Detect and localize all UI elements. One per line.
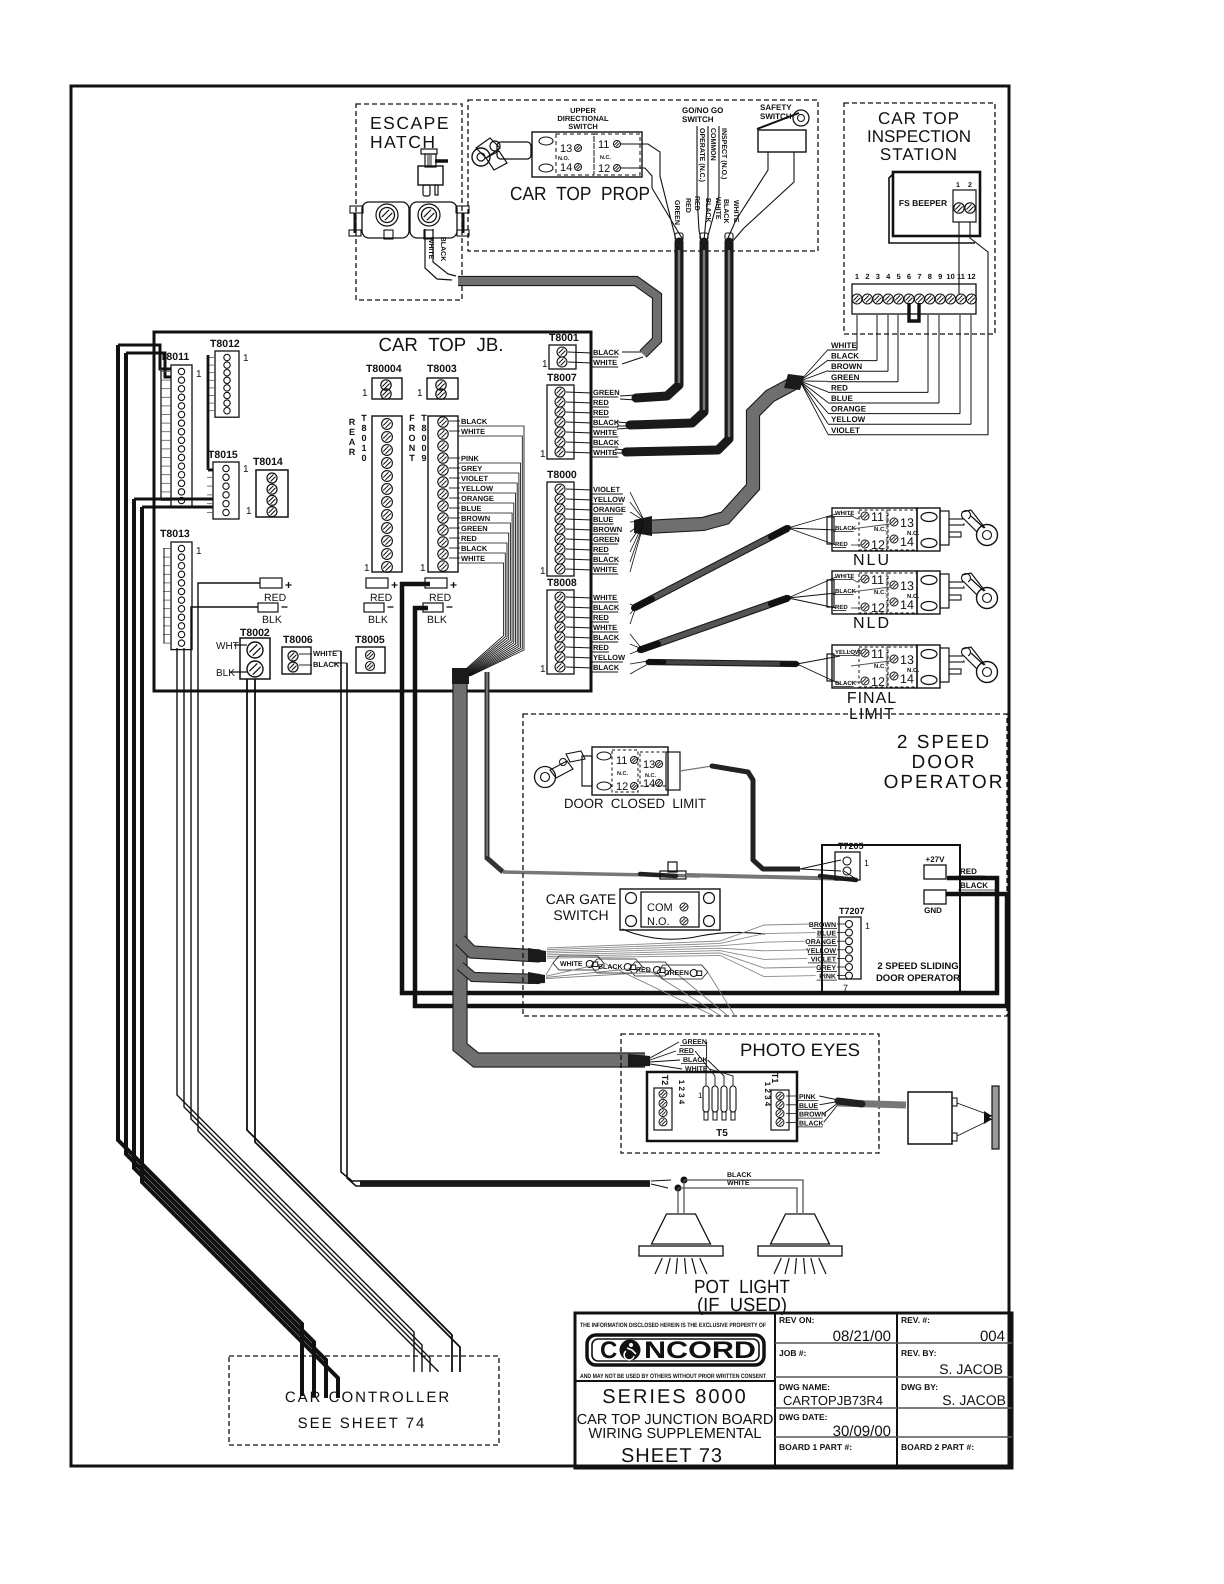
svg-text:NLD: NLD xyxy=(853,615,891,632)
svg-text:BLUE: BLUE xyxy=(799,1103,818,1110)
svg-text:T8003: T8003 xyxy=(427,363,457,375)
svg-text:RED: RED xyxy=(679,1048,694,1055)
svg-text:1: 1 xyxy=(540,566,546,577)
svg-text:BLACK: BLACK xyxy=(313,660,340,669)
svg-text:DWG BY:: DWG BY: xyxy=(901,1382,938,1392)
svg-text:GREEN: GREEN xyxy=(461,524,488,533)
svg-text:VIOLET: VIOLET xyxy=(831,426,860,435)
svg-text:PINK: PINK xyxy=(461,454,480,463)
svg-text:BROWN: BROWN xyxy=(593,525,622,534)
svg-text:9: 9 xyxy=(421,453,426,463)
svg-text:BLUE: BLUE xyxy=(593,515,613,524)
svg-text:13: 13 xyxy=(643,759,655,771)
svg-text:14: 14 xyxy=(560,162,572,174)
svg-text:VIOLET: VIOLET xyxy=(593,485,621,494)
svg-text:WHT: WHT xyxy=(216,641,239,652)
svg-text:11: 11 xyxy=(871,647,884,661)
svg-text:T8000: T8000 xyxy=(547,469,577,481)
svg-text:2: 2 xyxy=(865,272,869,281)
svg-text:12: 12 xyxy=(598,163,610,175)
svg-text:OPERATOR: OPERATOR xyxy=(884,772,1005,793)
svg-text:1: 1 xyxy=(364,563,370,574)
svg-text:PHOTO EYES: PHOTO EYES xyxy=(740,1040,860,1060)
svg-text:ESCAPE: ESCAPE xyxy=(370,113,450,133)
svg-text:RED: RED xyxy=(593,643,609,652)
svg-text:GO/NO GO: GO/NO GO xyxy=(682,106,723,115)
svg-text:1: 1 xyxy=(855,272,859,281)
svg-text:BLACK: BLACK xyxy=(727,1172,752,1179)
svg-text:YELLOW: YELLOW xyxy=(835,649,861,656)
svg-text:SEE SHEET 74: SEE SHEET 74 xyxy=(298,1415,427,1432)
svg-text:12: 12 xyxy=(967,272,975,281)
svg-text:T80004: T80004 xyxy=(366,363,402,375)
svg-text:BLACK: BLACK xyxy=(722,199,729,224)
svg-text:12: 12 xyxy=(871,601,885,615)
svg-text:ORANGE: ORANGE xyxy=(831,405,867,414)
svg-text:7: 7 xyxy=(917,272,921,281)
svg-text:RED: RED xyxy=(835,604,848,611)
svg-text:11: 11 xyxy=(871,510,884,524)
svg-text:F: F xyxy=(409,413,415,423)
svg-text:T7207: T7207 xyxy=(839,906,865,916)
svg-text:COM: COM xyxy=(647,902,673,914)
svg-text:BLK: BLK xyxy=(427,614,447,626)
svg-text:1: 1 xyxy=(196,369,202,380)
svg-text:BOARD 1 PART #:: BOARD 1 PART #: xyxy=(779,1442,852,1452)
svg-text:OPERATE (N.C.): OPERATE (N.C.) xyxy=(698,128,706,182)
svg-text:N.C.: N.C. xyxy=(874,526,886,533)
svg-text:BLK: BLK xyxy=(262,614,282,626)
svg-text:INSPECT (N.O.): INSPECT (N.O.) xyxy=(720,128,728,179)
svg-text:T: T xyxy=(361,413,367,423)
svg-text:STATION: STATION xyxy=(880,145,958,164)
svg-text:−: − xyxy=(387,600,394,614)
svg-text:13: 13 xyxy=(900,579,914,593)
svg-text:+: + xyxy=(285,578,292,592)
svg-text:WHITE: WHITE xyxy=(727,1180,750,1187)
svg-text:S. JACOB: S. JACOB xyxy=(939,1361,1003,1377)
svg-text:ORANGE: ORANGE xyxy=(461,494,494,503)
svg-text:ORANGE: ORANGE xyxy=(593,505,626,514)
svg-text:6: 6 xyxy=(907,272,911,281)
svg-text:RED: RED xyxy=(831,383,848,392)
svg-text:1: 1 xyxy=(417,388,423,399)
svg-text:BLK: BLK xyxy=(368,614,388,626)
svg-text:BLACK: BLACK xyxy=(461,417,488,426)
svg-text:BOARD 2 PART #:: BOARD 2 PART #: xyxy=(901,1442,974,1452)
svg-text:AND MAY NOT BE USED BY OTHERS: AND MAY NOT BE USED BY OTHERS WITHOUT PR… xyxy=(580,1373,766,1380)
svg-text:WHITE: WHITE xyxy=(593,358,617,367)
svg-text:0: 0 xyxy=(421,443,426,453)
svg-text:YELLOW: YELLOW xyxy=(593,495,626,504)
svg-text:NCORD: NCORD xyxy=(644,1337,756,1364)
svg-text:BROWN: BROWN xyxy=(461,514,490,523)
svg-text:BLACK: BLACK xyxy=(439,237,446,262)
svg-text:N: N xyxy=(409,443,416,453)
svg-text:0: 0 xyxy=(361,453,366,463)
svg-text:BLACK: BLACK xyxy=(683,1057,708,1064)
svg-text:1 2 3 4: 1 2 3 4 xyxy=(677,1080,686,1105)
svg-text:PINK: PINK xyxy=(799,1094,816,1101)
svg-text:BLACK: BLACK xyxy=(835,680,857,687)
svg-text:−: − xyxy=(446,600,453,614)
svg-text:13: 13 xyxy=(560,143,572,155)
svg-text:GREEN: GREEN xyxy=(673,200,680,225)
svg-text:O: O xyxy=(408,433,415,443)
svg-text:14: 14 xyxy=(900,672,914,686)
svg-text:BLACK: BLACK xyxy=(831,352,859,361)
svg-text:DWG DATE:: DWG DATE: xyxy=(779,1412,828,1422)
svg-text:T8007: T8007 xyxy=(547,372,577,384)
svg-text:BLUE: BLUE xyxy=(831,394,853,403)
svg-text:RED: RED xyxy=(960,867,977,876)
svg-text:REV ON:: REV ON: xyxy=(779,1315,815,1325)
svg-text:30/09/00: 30/09/00 xyxy=(833,1423,891,1440)
svg-text:REV. BY:: REV. BY: xyxy=(901,1348,937,1358)
svg-text:GREEN: GREEN xyxy=(682,1039,707,1046)
svg-text:DOOR OPERATOR: DOOR OPERATOR xyxy=(876,973,960,984)
svg-text:08/21/00: 08/21/00 xyxy=(833,1328,891,1345)
svg-text:WHITE: WHITE xyxy=(461,427,485,436)
svg-text:WHITE: WHITE xyxy=(427,237,434,260)
svg-text:13: 13 xyxy=(900,516,914,530)
svg-text:GREEN: GREEN xyxy=(593,388,620,397)
svg-text:COMMON: COMMON xyxy=(709,128,716,161)
svg-text:T8001: T8001 xyxy=(549,332,579,344)
svg-text:WHITE: WHITE xyxy=(593,428,617,437)
svg-text:R: R xyxy=(409,423,416,433)
svg-text:BLACK: BLACK xyxy=(593,348,620,357)
svg-text:1: 1 xyxy=(542,359,548,370)
svg-text:NLU: NLU xyxy=(853,552,891,569)
svg-text:S. JACOB: S. JACOB xyxy=(942,1392,1006,1408)
svg-text:BLUE: BLUE xyxy=(817,931,836,938)
svg-text:RED: RED xyxy=(461,534,477,543)
svg-text:N.C.: N.C. xyxy=(617,771,628,777)
svg-text:A: A xyxy=(349,437,356,447)
svg-text:12: 12 xyxy=(871,538,885,552)
svg-text:DWG NAME:: DWG NAME: xyxy=(779,1382,830,1392)
svg-text:GND: GND xyxy=(924,906,942,915)
svg-text:WHITE: WHITE xyxy=(313,649,337,658)
svg-text:1: 1 xyxy=(865,921,870,931)
svg-text:T: T xyxy=(409,453,415,463)
svg-text:JOB #:: JOB #: xyxy=(779,1348,807,1358)
svg-text:N.C.: N.C. xyxy=(874,663,886,670)
svg-text:CAR TOP JB.: CAR TOP JB. xyxy=(379,335,504,356)
svg-text:SERIES 8000: SERIES 8000 xyxy=(602,1386,747,1408)
svg-text:WHITE: WHITE xyxy=(593,565,617,574)
svg-text:T8014: T8014 xyxy=(253,456,283,468)
svg-text:WHITE: WHITE xyxy=(831,341,857,350)
svg-text:BLACK: BLACK xyxy=(799,1120,824,1127)
svg-text:T8002: T8002 xyxy=(240,627,270,639)
svg-text:0: 0 xyxy=(421,433,426,443)
svg-text:GREY: GREY xyxy=(816,965,836,972)
svg-text:+: + xyxy=(450,578,457,592)
svg-text:T8015: T8015 xyxy=(208,449,238,461)
svg-text:SAFETY: SAFETY xyxy=(760,103,792,112)
svg-text:1 2 3 4: 1 2 3 4 xyxy=(763,1082,772,1107)
svg-text:T8013: T8013 xyxy=(160,528,190,540)
svg-text:YELLOW: YELLOW xyxy=(593,653,626,662)
svg-text:R: R xyxy=(349,447,356,457)
svg-text:1: 1 xyxy=(196,546,202,557)
svg-text:1: 1 xyxy=(243,353,249,364)
svg-text:CAR TOP: CAR TOP xyxy=(878,109,960,128)
svg-text:N.O.: N.O. xyxy=(647,916,670,928)
svg-text:GREEN: GREEN xyxy=(831,373,860,382)
svg-text:WHITE: WHITE xyxy=(560,961,583,968)
svg-text:2: 2 xyxy=(968,182,972,189)
svg-text:RED: RED xyxy=(593,613,609,622)
svg-text:WHITE: WHITE xyxy=(732,200,739,223)
svg-text:13: 13 xyxy=(900,653,914,667)
svg-text:REV. #:: REV. #: xyxy=(901,1315,930,1325)
svg-text:004: 004 xyxy=(980,1328,1005,1345)
svg-text:11: 11 xyxy=(598,139,609,151)
svg-text:RED: RED xyxy=(684,198,691,213)
svg-text:BLACK: BLACK xyxy=(593,438,620,447)
svg-text:+27V: +27V xyxy=(926,855,946,864)
svg-text:3: 3 xyxy=(876,272,880,281)
svg-text:14: 14 xyxy=(900,535,914,549)
svg-text:8: 8 xyxy=(361,423,366,433)
svg-text:2 SPEED SLIDING: 2 SPEED SLIDING xyxy=(877,961,958,972)
svg-text:5: 5 xyxy=(897,272,901,281)
svg-text:12: 12 xyxy=(616,781,628,793)
svg-text:1: 1 xyxy=(698,1091,703,1100)
svg-text:FINAL: FINAL xyxy=(847,690,897,707)
svg-text:WIRING SUPPLEMENTAL: WIRING SUPPLEMENTAL xyxy=(589,1426,762,1442)
svg-text:BROWN: BROWN xyxy=(799,1112,826,1119)
svg-text:1: 1 xyxy=(540,449,546,460)
svg-text:1: 1 xyxy=(864,858,869,868)
svg-text:N.C.: N.C. xyxy=(874,589,886,596)
svg-text:R: R xyxy=(349,417,356,427)
svg-text:T8012: T8012 xyxy=(210,338,240,350)
svg-text:DOOR: DOOR xyxy=(912,752,977,773)
svg-text:1: 1 xyxy=(362,388,368,399)
svg-text:12: 12 xyxy=(871,675,885,689)
svg-text:1: 1 xyxy=(246,506,252,517)
svg-text:RED: RED xyxy=(693,196,700,211)
svg-text:RED: RED xyxy=(835,541,848,548)
svg-text:BLACK: BLACK xyxy=(593,555,620,564)
svg-text:VIOLET: VIOLET xyxy=(461,474,489,483)
svg-text:SWITCH: SWITCH xyxy=(568,122,598,131)
svg-text:CAR CONTROLLER: CAR CONTROLLER xyxy=(285,1389,451,1406)
svg-text:−: − xyxy=(281,600,288,614)
svg-text:8: 8 xyxy=(928,272,932,281)
svg-text:T8006: T8006 xyxy=(283,634,313,646)
svg-text:BLK: BLK xyxy=(216,668,235,679)
svg-text:GREY: GREY xyxy=(461,464,482,473)
svg-text:10: 10 xyxy=(946,272,954,281)
svg-text:1: 1 xyxy=(243,464,249,475)
svg-text:SWITCH: SWITCH xyxy=(682,115,714,124)
svg-text:T5: T5 xyxy=(716,1128,728,1139)
svg-text:E: E xyxy=(349,427,355,437)
svg-text:ORANGE: ORANGE xyxy=(805,939,836,946)
svg-text:BLACK: BLACK xyxy=(960,881,988,890)
svg-text:T: T xyxy=(421,413,427,423)
svg-text:CAR GATE: CAR GATE xyxy=(546,891,617,907)
svg-text:BLACK: BLACK xyxy=(461,544,488,553)
svg-text:14: 14 xyxy=(900,598,914,612)
svg-text:0: 0 xyxy=(361,433,366,443)
svg-text:BROWN: BROWN xyxy=(831,362,862,371)
svg-text:CAR TOP PROP: CAR TOP PROP xyxy=(510,184,650,205)
svg-text:SHEET 73: SHEET 73 xyxy=(621,1445,723,1467)
svg-text:RED: RED xyxy=(593,408,609,417)
svg-text:1: 1 xyxy=(420,563,426,574)
svg-text:VIOLET: VIOLET xyxy=(811,956,837,963)
svg-text:BLACK: BLACK xyxy=(593,418,620,427)
svg-text:RED: RED xyxy=(593,545,609,554)
svg-text:BLACK: BLACK xyxy=(593,663,620,672)
svg-text:8: 8 xyxy=(421,423,426,433)
svg-text:YELLOW: YELLOW xyxy=(831,415,866,424)
svg-text:11: 11 xyxy=(871,573,884,587)
svg-text:1: 1 xyxy=(361,443,366,453)
svg-text:DOOR CLOSED LIMIT: DOOR CLOSED LIMIT xyxy=(564,796,706,811)
svg-text:+: + xyxy=(391,578,398,592)
svg-text:C: C xyxy=(600,1337,617,1364)
svg-text:14: 14 xyxy=(643,778,655,790)
svg-text:CARTOPJB73R4: CARTOPJB73R4 xyxy=(783,1393,883,1408)
svg-text:N.C.: N.C. xyxy=(600,155,611,161)
svg-text:11: 11 xyxy=(957,272,965,281)
svg-text:SWITCH: SWITCH xyxy=(553,907,608,923)
svg-text:T8005: T8005 xyxy=(355,634,385,646)
svg-text:WHITE: WHITE xyxy=(593,593,617,602)
svg-text:FS BEEPER: FS BEEPER xyxy=(899,198,947,208)
svg-text:1: 1 xyxy=(956,182,960,189)
svg-text:WHITE: WHITE xyxy=(593,448,617,457)
svg-text:INSPECTION: INSPECTION xyxy=(867,127,971,146)
svg-text:YELLOW: YELLOW xyxy=(461,484,494,493)
svg-text:1: 1 xyxy=(540,664,546,675)
svg-text:WHITE: WHITE xyxy=(461,554,485,563)
svg-text:GREEN: GREEN xyxy=(664,970,689,977)
svg-text:GREEN: GREEN xyxy=(593,535,620,544)
svg-text:WHITE: WHITE xyxy=(593,623,617,632)
svg-text:BLACK: BLACK xyxy=(593,603,620,612)
svg-text:RED: RED xyxy=(593,398,609,407)
svg-text:BLUE: BLUE xyxy=(461,504,481,513)
svg-text:2 SPEED: 2 SPEED xyxy=(897,732,991,753)
svg-text:T2: T2 xyxy=(660,1075,670,1086)
svg-text:BLACK: BLACK xyxy=(593,633,620,642)
svg-text:9: 9 xyxy=(938,272,942,281)
svg-text:7: 7 xyxy=(843,983,848,993)
svg-text:THE INFORMATION DISCLOSED HERE: THE INFORMATION DISCLOSED HEREIN IS THE … xyxy=(580,1322,766,1329)
svg-text:T8008: T8008 xyxy=(547,577,577,589)
svg-text:11: 11 xyxy=(616,755,627,767)
